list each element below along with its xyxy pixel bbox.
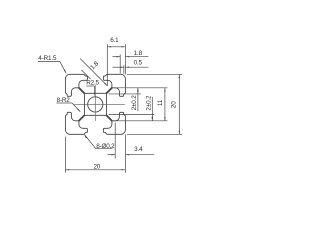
svg-text:8-R2: 8-R2 <box>57 97 71 104</box>
svg-text:0.5: 0.5 <box>134 59 143 66</box>
svg-text:R2.5: R2.5 <box>86 79 99 86</box>
svg-text:6.1: 6.1 <box>110 37 119 44</box>
svg-text:2±0.2: 2±0.2 <box>145 95 152 111</box>
svg-text:4-R1.5: 4-R1.5 <box>38 55 57 62</box>
svg-text:20: 20 <box>93 163 100 170</box>
svg-text:20: 20 <box>171 101 178 108</box>
svg-text:2±0.2: 2±0.2 <box>131 95 138 111</box>
svg-text:1.8: 1.8 <box>134 50 143 57</box>
svg-text:8-Ø0.2: 8-Ø0.2 <box>96 143 115 150</box>
svg-text:11: 11 <box>157 99 164 106</box>
svg-text:3.4: 3.4 <box>134 146 143 153</box>
